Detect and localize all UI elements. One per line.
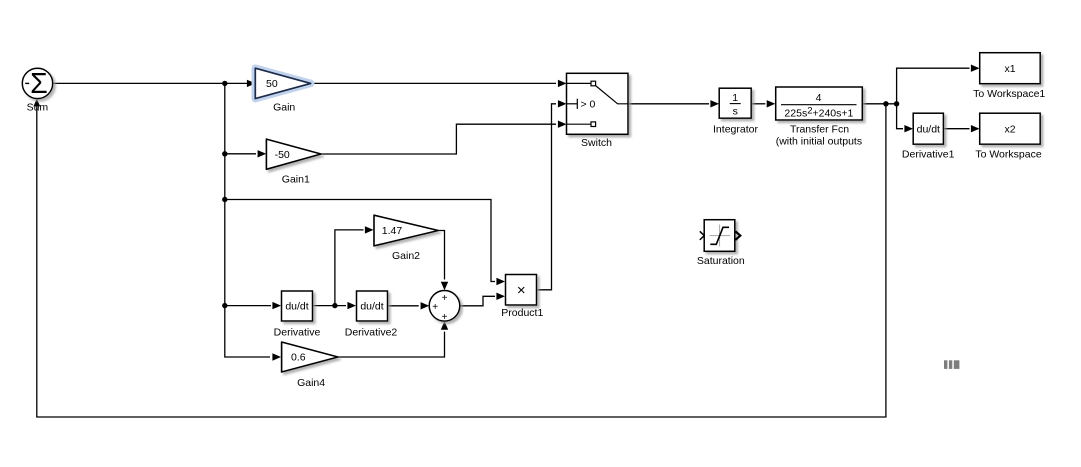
svg-text:du/dt: du/dt (917, 123, 940, 135)
svg-text:> 0: > 0 (581, 98, 596, 110)
svg-text:1: 1 (732, 92, 738, 104)
derivative block Derivative1 (du/dt) (913, 113, 943, 144)
svg-text:225s2+240s+1: 225s2+240s+1 (784, 105, 853, 119)
wire Gain1 output to Switch input 3 (321, 121, 567, 155)
svg-text:50: 50 (266, 78, 278, 90)
svg-text:Product1: Product1 (501, 307, 543, 319)
wire Derivative2 output to Sum2 left input (388, 302, 430, 309)
svg-text:+: + (442, 293, 448, 304)
svg-text:4: 4 (816, 92, 822, 104)
transfer function block Transfer Fcn (776, 87, 863, 120)
junction node trunk-Product line (222, 197, 227, 202)
gray status badge icon (944, 360, 959, 369)
svg-text:x2: x2 (1004, 124, 1015, 136)
junction node at trunk top (222, 81, 227, 86)
derivative block Derivative2 (du/dt) (357, 291, 388, 321)
wire Sum2 output to Product1 second input (460, 293, 505, 306)
label Gain (273, 102, 295, 114)
wire Gain4 output to Sum2 bottom input (338, 321, 448, 357)
svg-text:du/dt: du/dt (285, 301, 308, 313)
wire trunk branch to Product1 first input (225, 200, 505, 286)
wire branch down to Derivative1 input (897, 104, 913, 133)
label Gain1 (282, 174, 310, 186)
sum block Sum2 (circle with three plus inputs) (429, 291, 460, 323)
wire Integrator output to Transfer Fcn input (751, 100, 775, 107)
junction node feedback takeoff (883, 101, 888, 106)
svg-text:Sum: Sum (27, 102, 49, 114)
saturation block Saturation (700, 220, 741, 252)
junction node trunk-Derivative (222, 303, 227, 308)
wire Derivative1 output to To Workspace input (943, 125, 979, 132)
gain block Gain (selected, value 50) (255, 68, 310, 98)
wire trunk branch to Gain1 (225, 150, 266, 157)
svg-text:+: + (432, 302, 438, 313)
label To Workspace1 (973, 88, 1045, 100)
wire Gain output to Switch input 1 (311, 80, 567, 87)
label Derivative (274, 327, 321, 339)
wire trunk branch to Derivative input (225, 302, 281, 309)
label Integrator (713, 123, 758, 135)
wire Switch output to Integrator input (629, 100, 720, 107)
svg-text:×: × (517, 282, 526, 299)
svg-text:+: + (442, 312, 448, 323)
derivative block Derivative (du/dt) (282, 291, 313, 321)
gain block Gain2 (value 1.47) (374, 215, 438, 246)
wire Derivative output to Derivative2 input (313, 302, 357, 309)
svg-text:Derivative2: Derivative2 (345, 327, 398, 339)
svg-text:Saturation: Saturation (697, 255, 745, 267)
svg-text:Derivative1: Derivative1 (902, 148, 955, 160)
sum block Sum (circle with sigma) (22, 68, 52, 100)
label Gain4 (297, 377, 325, 389)
svg-text:Gain4: Gain4 (297, 377, 325, 389)
svg-text:(with initial outputs: (with initial outputs (776, 136, 862, 148)
label Transfer Fcn line 1 (790, 123, 849, 135)
svg-text:x1: x1 (1004, 63, 1015, 75)
wire Sum output to Gain input (53, 80, 256, 87)
label To Workspace (975, 148, 1041, 160)
gain block Gain1 (value -50) (266, 139, 321, 169)
wire Derivative out up to Gain2 input (335, 226, 374, 305)
label Product1 (501, 307, 543, 319)
svg-text:Gain2: Gain2 (392, 250, 420, 262)
wire Product1 output up to Switch input 2 (537, 100, 567, 290)
label Transfer Fcn line 2 (776, 136, 862, 148)
wire trunk vertical from Sum line down to Gain4 level (225, 83, 281, 360)
wire branch up to To Workspace1 (897, 65, 980, 104)
wire Transfer Fcn output to branch point (863, 103, 897, 105)
svg-text:Gain: Gain (273, 102, 295, 114)
svg-text:0.6: 0.6 (291, 352, 306, 364)
product block Product1 (506, 275, 537, 306)
label Derivative2 (345, 327, 398, 339)
wire Gain2 output down to Sum2 top input (438, 231, 448, 291)
junction node workspace takeoff (894, 101, 899, 106)
svg-text:Gain1: Gain1 (282, 174, 310, 186)
svg-text:Derivative: Derivative (274, 327, 321, 339)
junction node Derivative out to Gain2 (332, 303, 337, 308)
svg-text:1.47: 1.47 (382, 225, 403, 237)
svg-text:To Workspace1: To Workspace1 (973, 88, 1045, 100)
svg-text:-50: -50 (275, 149, 290, 161)
svg-text:To Workspace: To Workspace (975, 148, 1041, 160)
to-workspace block To Workspace1 (x1) (980, 53, 1040, 84)
label Sum (27, 102, 49, 114)
label Switch (581, 137, 612, 149)
svg-text:Switch: Switch (581, 137, 612, 149)
svg-text:Σ: Σ (30, 68, 48, 100)
gain block Gain4 (value 0.6) (282, 342, 338, 372)
junction node trunk-Gain1 (222, 151, 227, 156)
wire feedback loop to Sum bottom input (33, 99, 886, 417)
integrator block Integrator (1/s) (719, 88, 751, 118)
label Gain2 (392, 250, 420, 262)
svg-text:s: s (733, 106, 738, 118)
label Derivative1 (902, 148, 955, 160)
svg-text:Transfer Fcn: Transfer Fcn (790, 123, 849, 135)
to-workspace block To Workspace (x2) (980, 113, 1040, 144)
label Saturation (697, 255, 745, 267)
svg-text:Integrator: Integrator (713, 123, 758, 135)
svg-text:du/dt: du/dt (360, 301, 383, 313)
switch block Switch (567, 73, 629, 134)
